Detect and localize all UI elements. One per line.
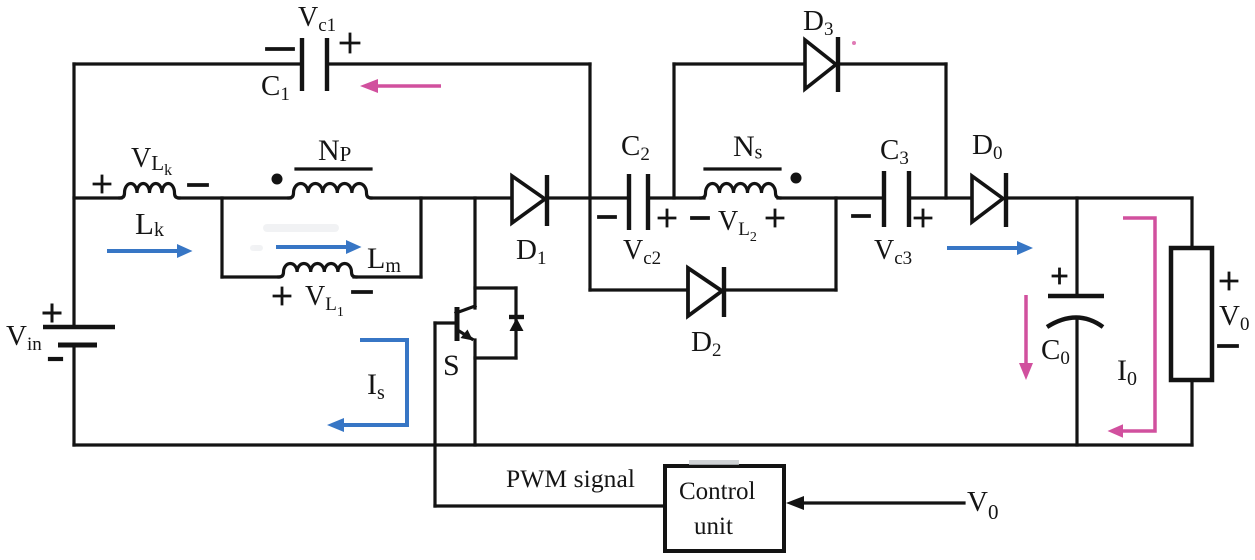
overline Ns [705, 167, 780, 170]
wire D2 rail right [725, 288, 836, 291]
diode D0 [972, 173, 1006, 227]
wire D3 right vertical [944, 64, 947, 198]
inductor Lm [279, 264, 356, 278]
wire bottom rail [74, 443, 1192, 446]
wire main left [74, 196, 121, 199]
wire D2 left vertical [588, 64, 591, 290]
current arrow blue Lm [276, 240, 362, 254]
minus sign VL2 [692, 216, 708, 220]
polarity dot secondary [791, 173, 802, 184]
load resistor [1171, 248, 1212, 380]
polarity dot primary [272, 174, 283, 185]
inductor Lk [120, 184, 179, 199]
svg-text:unit: unit [694, 513, 733, 540]
plus sign VL2 [767, 210, 783, 226]
wire right vertical lower [1190, 380, 1193, 445]
minus sign VL1 [353, 290, 371, 294]
wire D2 right vertical [834, 198, 837, 290]
current arrow blue Lk [107, 244, 193, 258]
wire Ns to C3 [778, 196, 884, 199]
capacitor C0 branch vertical upper [1075, 198, 1078, 296]
gate wire horizontal to control unit [435, 504, 666, 507]
wire D1 to C2 [547, 196, 629, 199]
minus sign V0 [1219, 344, 1237, 348]
wire top rail left [74, 62, 302, 65]
wire D3 rail right [838, 62, 946, 65]
transistor S [435, 306, 475, 341]
magnetizing branch right vertical [419, 198, 422, 277]
capacitor C3 [884, 171, 909, 227]
wire left vertical [72, 64, 75, 327]
wire top rail right [327, 62, 590, 65]
feedback arrow into control unit [786, 496, 964, 510]
wire main Np to D1 [371, 196, 512, 199]
current arrow blue output [947, 241, 1033, 255]
svg-text:S: S [443, 349, 460, 382]
wire left vertical lower [72, 345, 75, 445]
diode D1 [512, 175, 547, 226]
minus sign C3 [853, 214, 869, 218]
minus sign C2 [599, 215, 615, 219]
artifact faint smudge [250, 224, 339, 251]
antiparallel diode D of switch [509, 317, 524, 331]
wire right vertical upper [1190, 198, 1193, 248]
capacitor C0 [1047, 296, 1104, 327]
plus sign VLk [94, 176, 110, 192]
minus sign VLk [189, 183, 207, 187]
wire D3 left vertical [672, 64, 675, 198]
capacitor C2 [629, 174, 648, 230]
transformer primary Np [289, 183, 371, 198]
magnetizing branch bottom right wire [354, 275, 421, 278]
diode D2 [688, 267, 724, 317]
wire D0 to right corner [1006, 196, 1192, 199]
plus sign C0 [1053, 269, 1066, 283]
magnetizing branch left vertical [220, 198, 223, 277]
minus sign C1 [267, 47, 293, 51]
magnetizing branch bottom left wire [222, 275, 279, 278]
antiparallel diode loop top wire [475, 286, 516, 289]
current arrow pink C0 [1019, 295, 1033, 380]
label Control unit [679, 478, 755, 540]
antiparallel diode loop bottom wire [475, 356, 516, 359]
artifact smudge on box top [689, 460, 739, 465]
antiparallel diode loop right vertical [514, 288, 517, 358]
gate wire vertical [433, 323, 436, 506]
current arrow pink near C1 [360, 79, 441, 93]
plus sign C1 [341, 34, 359, 52]
wire D2 rail left [590, 288, 690, 291]
plus sign VL1 [274, 288, 290, 304]
wire C3 to D0 [909, 196, 972, 199]
transformer secondary Ns [701, 184, 780, 199]
switch branch vertical from main [473, 198, 476, 308]
wire main Lk to Np [179, 196, 290, 199]
current loop blue Is [327, 340, 407, 432]
svg-text:Control: Control [679, 478, 755, 505]
capacitor C0 branch vertical lower [1075, 318, 1078, 445]
battery Vin [43, 327, 115, 345]
svg-text:PWM signal: PWM signal [506, 464, 635, 493]
artifact pink dot [852, 41, 856, 45]
wire D3 rail left [674, 62, 805, 65]
diode D3 [805, 37, 838, 92]
plus sign C3 [915, 210, 931, 226]
wire C2 to Ns [648, 196, 704, 199]
current loop pink I0 [1108, 218, 1156, 438]
control unit box [665, 466, 784, 551]
capacitor C1 [302, 38, 327, 91]
emitter wire to bottom rail [473, 340, 476, 445]
overline Np [296, 167, 371, 170]
plus sign V0 [1221, 273, 1237, 289]
minus sign battery [50, 357, 61, 361]
plus sign battery [44, 305, 60, 321]
plus sign C2 [659, 210, 675, 226]
